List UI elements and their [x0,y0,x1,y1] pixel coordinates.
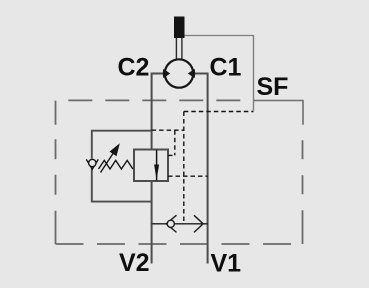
pilot sense line vertical [183,112,185,223]
pilot drain ball check seat [86,159,98,169]
lever link vertical to SF [253,36,255,111]
lever handle [174,17,185,39]
pilot line: loop top to pilot box (dashed) [152,129,184,131]
lever stem [176,38,182,60]
svg-text:SF: SF [257,73,289,101]
wire C1 horizontal + vertical down to V1 [193,74,207,264]
pilot into relief square right side [168,154,175,156]
adjustment arrow [101,152,115,173]
pilot line square bottom to C1 [168,175,208,177]
valve seat triangle left [163,69,170,78]
svg-text:V1: V1 [211,250,242,278]
SF port line (solid part of enclosure top-right) [254,101,304,125]
relief valve body square [134,150,168,182]
valve body dashed enclosure [56,100,303,244]
relief valve bypass loop wires [92,131,152,202]
pilot drop to relief square [174,130,176,155]
spring [99,160,133,169]
relief valve flow line with down arrow [156,150,158,181]
shut-off ball valve circle [165,59,193,87]
wire C2 horizontal + vertical down to V2 [152,74,165,264]
pilot sense line horizontal to SF [184,111,254,113]
svg-text:V2: V2 [119,249,150,277]
lever thin link line [185,35,254,37]
svg-text:C2: C2 [118,54,150,82]
svg-text:C1: C1 [210,54,242,82]
valve seat triangle right [188,69,195,78]
check valve ball [167,220,174,227]
check valve line V2-V1 [152,223,208,225]
flow direction arrow [194,215,203,232]
pilot drain ball [89,159,96,166]
check valve seat [166,215,176,232]
